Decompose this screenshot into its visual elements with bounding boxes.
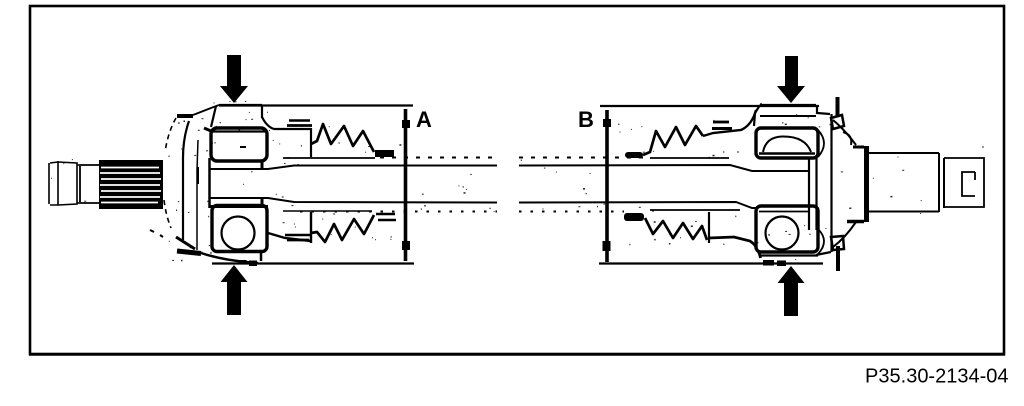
right joint shaft end face — [809, 158, 817, 230]
right boot top small clamp — [625, 152, 643, 158]
left spline block — [99, 160, 163, 209]
right joint ball pockets — [818, 130, 824, 254]
right CV joint housing outline — [754, 105, 832, 256]
left stub shaft end cap — [49, 161, 79, 205]
right stub end — [944, 158, 984, 207]
shaft inner tick left — [197, 167, 199, 184]
svg-text:B: B — [578, 107, 594, 132]
arrow up left — [221, 265, 248, 315]
dimension line B top — [600, 105, 819, 107]
left joint bottom ear — [150, 230, 258, 263]
arrow up right — [778, 266, 805, 316]
right housing top bolt stub — [831, 97, 851, 145]
dimension line A vertical — [402, 109, 410, 261]
right joint bottom bearing — [756, 206, 818, 252]
right boot top bellows — [643, 126, 703, 155]
svg-text:A: A — [416, 107, 432, 132]
left joint shaft end face — [208, 158, 211, 208]
right boot top clamp — [712, 122, 732, 129]
right boot bottom outline — [709, 237, 761, 258]
dotted hidden line top left — [380, 157, 497, 159]
left boot bottom outline — [268, 212, 311, 243]
left housing top cap — [204, 105, 262, 131]
left boot top bellows — [311, 124, 374, 152]
right boot bottom small clamp — [624, 213, 644, 221]
left boot top clamp — [287, 121, 312, 126]
right boot top outline — [703, 110, 756, 136]
right boot bottom edge — [708, 212, 710, 243]
dimension line B vertical — [603, 110, 612, 262]
arrow down right — [777, 56, 805, 103]
left boot top inner line — [283, 157, 375, 159]
left stub shaft neck — [79, 165, 99, 203]
left boot top small clamp — [375, 150, 394, 157]
right stub cylinder — [869, 153, 944, 212]
left boot top outline — [262, 117, 311, 157]
right output flange bar — [847, 146, 867, 222]
dimension line A top — [219, 104, 413, 106]
dimension line B bottom — [599, 262, 823, 264]
left CV joint housing outer bell — [164, 105, 219, 250]
left joint bottom bearing — [209, 197, 268, 252]
dimension line A bottom — [212, 262, 414, 264]
left boot bottom clamp — [285, 235, 310, 240]
right boot top inner line — [650, 157, 729, 159]
left boot bottom small clamp — [376, 214, 396, 220]
shaft bottom edge right — [519, 202, 809, 208]
right housing flange arms — [833, 120, 856, 247]
dotted hidden line top right — [519, 157, 643, 159]
right boot bottom bellows — [645, 218, 707, 240]
shaft top edge left — [209, 166, 497, 170]
dotted hidden line bottom right — [519, 211, 624, 213]
arrow down left — [220, 55, 248, 103]
right joint top bearing — [756, 128, 818, 158]
shaft top edge right — [519, 165, 809, 171]
dotted hidden line bottom left — [300, 211, 497, 213]
shaft bottom edge left — [209, 198, 497, 203]
svg-text:P35.30-2134-04: P35.30-2134-04 — [865, 366, 1008, 388]
marks on bottom line right — [763, 260, 774, 266]
right boot bottom inner line — [650, 209, 740, 211]
left boot bottom inner line — [283, 210, 372, 212]
right housing bottom bolt stub — [831, 236, 844, 271]
scan noise speckles — [51, 101, 984, 261]
left boot bottom bellows — [311, 215, 374, 242]
mark on bottom line — [240, 260, 247, 265]
left joint top bearing — [210, 128, 268, 170]
